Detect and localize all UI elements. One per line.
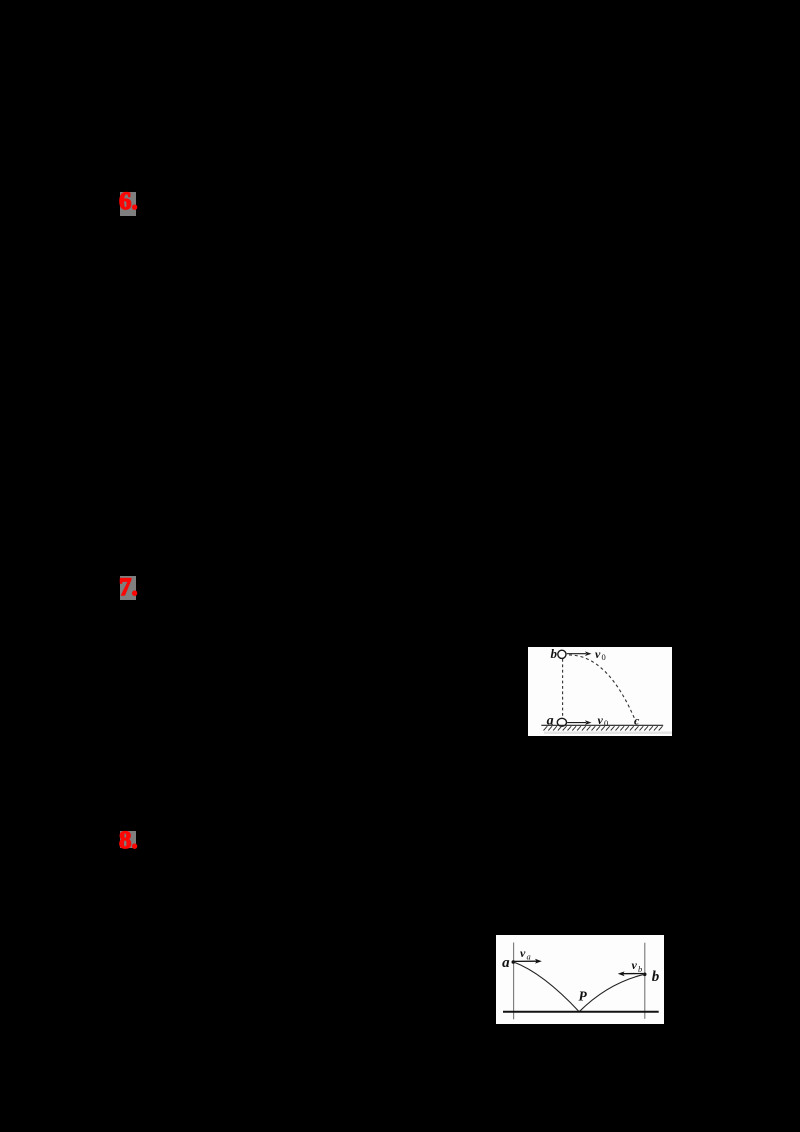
svg-text:b: b [638,964,642,974]
svg-text:b: b [551,647,558,661]
svg-text:v: v [595,647,601,661]
svg-text:0: 0 [602,652,606,662]
svg-text:a: a [527,952,531,962]
svg-text:v: v [632,958,638,972]
svg-text:v: v [520,946,526,960]
svg-text:a: a [502,955,510,971]
svg-text:P: P [579,989,588,1004]
svg-text:a: a [547,714,554,729]
svg-text:b: b [652,969,660,985]
